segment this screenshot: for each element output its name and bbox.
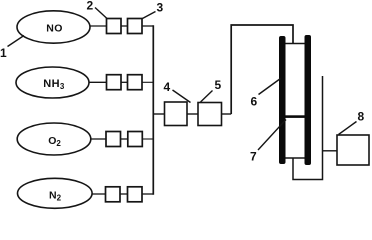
label 1	[0, 36, 24, 61]
svg-text:8: 8	[358, 110, 365, 124]
gas cylinder NO	[17, 11, 90, 43]
analyzer box (8)	[337, 135, 369, 165]
svg-text:7: 7	[250, 150, 257, 164]
svg-text:NH3: NH3	[43, 78, 65, 91]
svg-text:N2: N2	[49, 190, 62, 203]
label 7	[250, 120, 286, 164]
wire NO cylinder to valve	[90, 25, 107, 27]
svg-text:1: 1	[0, 46, 7, 60]
wire row4 valve to bus	[142, 193, 153, 195]
wire between row4 valves	[120, 193, 128, 195]
wire to analyzer box 8	[323, 150, 338, 152]
svg-text:NO: NO	[46, 23, 63, 35]
wire row2 valve to bus	[142, 81, 153, 83]
mixer box (4)	[165, 102, 188, 126]
valve square row1-a	[107, 19, 122, 34]
wire N2 cylinder to valve	[92, 193, 106, 195]
svg-text:4: 4	[164, 80, 171, 94]
label 8	[339, 110, 365, 135]
reactor tube top	[286, 43, 305, 45]
manifold bus wire	[152, 25, 154, 195]
gas cylinder NH3	[16, 67, 89, 98]
furnace right heater bar	[305, 35, 312, 165]
svg-text:2: 2	[87, 0, 94, 13]
valve square row4-b	[128, 187, 143, 202]
reactor outlet wire	[293, 76, 323, 180]
preheater box (5)	[198, 103, 222, 126]
label 2	[87, 0, 108, 19]
label 6	[251, 79, 281, 109]
valve square row1-b	[128, 19, 143, 34]
valve square row2-b	[128, 75, 143, 90]
svg-text:O2: O2	[48, 135, 61, 148]
wire between row2 valves	[121, 81, 128, 83]
wire row3 valve to bus	[142, 138, 153, 140]
valve square row3-b	[128, 132, 143, 147]
valve square row2-a	[107, 75, 122, 90]
wire box4 to box5	[187, 113, 198, 115]
svg-text:3: 3	[157, 1, 164, 15]
gas cylinder N2	[18, 178, 93, 208]
wire bus to mixer box 4	[153, 113, 164, 115]
wire O2 cylinder to valve	[91, 138, 106, 140]
reactor tube bottom	[286, 157, 305, 159]
svg-text:5: 5	[215, 78, 222, 92]
label 4	[164, 80, 191, 103]
valve square row3-a	[106, 132, 121, 147]
valve square row4-a	[106, 187, 121, 202]
svg-text:6: 6	[251, 95, 258, 109]
wire box5 to riser	[222, 113, 232, 115]
wire row1 valve to bus	[142, 25, 153, 27]
wire between row1 valves	[121, 25, 128, 27]
wire NH3 cylinder to valve	[89, 81, 107, 83]
feed riser wire	[231, 25, 293, 114]
furnace left heater bar	[279, 36, 286, 164]
label 3	[142, 1, 164, 20]
catalyst bed (7)	[286, 115, 305, 118]
label 5	[201, 78, 222, 102]
gas cylinder O2	[17, 123, 91, 155]
wire between row3 valves	[121, 138, 128, 140]
